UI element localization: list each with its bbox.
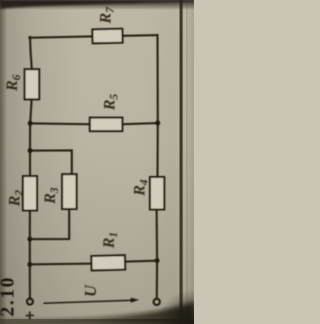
arrow for U xyxy=(44,298,140,304)
resistor R6 xyxy=(25,69,40,99)
resistor R5 xyxy=(90,118,123,132)
wire: bottom rail left segment xyxy=(30,263,92,266)
wire: right spine to R4 xyxy=(157,123,159,177)
node: middle-right junction xyxy=(155,121,160,126)
terminal + (open circle) xyxy=(27,299,33,305)
svg-text:2.10: 2.10 xyxy=(0,276,19,317)
wire: R4 bottom to junction xyxy=(156,210,159,261)
wire: left spine into R2 xyxy=(29,151,31,177)
plus sign label xyxy=(26,312,34,320)
wire: R2 bottom to join xyxy=(29,211,31,240)
wire: left spine to R1 junction xyxy=(29,239,31,264)
resistor R3 xyxy=(62,174,77,209)
node: bottom-left junction xyxy=(27,262,32,267)
wire: left terminal lead xyxy=(29,264,31,297)
resistor R7 xyxy=(92,29,122,44)
wire: bottom rail right segment xyxy=(125,261,157,262)
wire: right terminal lead xyxy=(156,261,158,298)
svg-text:U: U xyxy=(81,284,100,297)
node: R3 top junction xyxy=(28,148,33,153)
terminal - (open circle) xyxy=(154,299,160,305)
node: R3 bottom junction xyxy=(27,237,32,242)
resistor R4 xyxy=(150,177,164,210)
resistor R2 xyxy=(23,176,37,210)
wire: right spine upper xyxy=(157,35,159,123)
node: middle-left junction xyxy=(28,121,33,126)
wire: R3 bottom rail xyxy=(30,209,69,239)
node: bottom-right junction xyxy=(155,258,160,263)
wire: top rail left segment xyxy=(29,36,92,37)
resistor R1 xyxy=(91,255,125,270)
wire: left spine between junctions xyxy=(29,123,31,150)
wire: R3 top rail and drop xyxy=(30,150,72,174)
wire: middle rail left segment xyxy=(30,122,90,125)
minus sign label (rotated, appears vertical) xyxy=(155,312,157,318)
wire: top rail right segment xyxy=(123,34,158,37)
wire: left spine upper (corner to R6) xyxy=(30,37,32,69)
wire: R6 bottom to middle junction xyxy=(30,99,31,123)
wire: middle rail right segment xyxy=(122,123,157,124)
